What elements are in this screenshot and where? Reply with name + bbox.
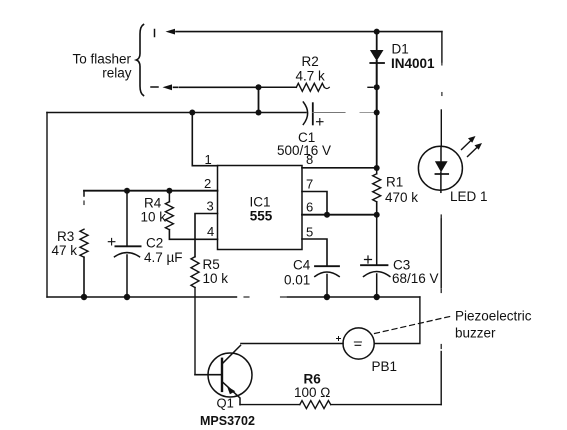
svg-text:Piezoelectric: Piezoelectric: [455, 309, 532, 324]
wire top rail down to LED: [441, 32, 443, 62]
buzzer PB1: [337, 328, 375, 359]
svg-text:C2: C2: [146, 236, 163, 251]
capacitor C3: [361, 215, 390, 297]
svg-text:D1: D1: [392, 41, 409, 56]
svg-text:100 Ω: 100 Ω: [294, 385, 330, 400]
LED 1: [418, 136, 482, 192]
label C2: [144, 236, 183, 266]
node junction top at D1: [374, 29, 380, 35]
node junction R3 bottom: [81, 294, 87, 300]
svg-text:10 k: 10 k: [141, 210, 167, 225]
wire emitter bottom run: [240, 404, 300, 406]
node junction pin1 drop: [189, 110, 195, 116]
svg-text:3: 3: [207, 199, 214, 214]
label R2: [296, 54, 326, 84]
svg-text:5: 5: [306, 225, 313, 240]
svg-text:6: 6: [306, 200, 313, 215]
svg-text:R4: R4: [144, 196, 162, 211]
wire R6 to right rail: [331, 404, 442, 406]
svg-text:relay: relay: [102, 66, 132, 81]
svg-text:MPS3702: MPS3702: [200, 414, 255, 428]
plus terminal mark: [154, 30, 156, 37]
svg-text:IN4001: IN4001: [391, 56, 435, 71]
node junction pin7/pin6: [324, 212, 330, 218]
label R4: [141, 196, 167, 225]
svg-text:7: 7: [306, 177, 313, 192]
resistor R3: [80, 191, 88, 297]
label R1: [385, 175, 418, 206]
svg-text:2: 2: [204, 176, 211, 191]
svg-text:buzzer: buzzer: [455, 326, 496, 341]
wire between relay line and C1 line: [258, 87, 260, 112]
node junction R2/D1: [374, 84, 380, 90]
wire right rail up to LED: [440, 352, 442, 405]
capacitor C4: [315, 266, 339, 297]
minus terminal mark: [151, 86, 158, 88]
resistor R1: [373, 168, 381, 215]
svg-text:Q1: Q1: [217, 396, 234, 411]
svg-text:1: 1: [205, 152, 212, 167]
svg-text:4.7 k: 4.7 k: [296, 69, 326, 84]
svg-text:68/16 V: 68/16 V: [392, 271, 439, 286]
wire pin1 drop: [192, 113, 217, 166]
label Piezoelectric buzzer with pointer: [375, 316, 453, 334]
wire pin 7 to pin 6: [302, 192, 327, 215]
wire bottom rail: [47, 296, 237, 298]
svg-text:0.01: 0.01: [284, 273, 310, 288]
wire D1 to pin8 node: [376, 113, 378, 169]
svg-text:500/16 V: 500/16 V: [277, 143, 331, 158]
svg-text:47 k: 47 k: [52, 243, 78, 258]
svg-text:IC1: IC1: [249, 195, 270, 210]
svg-text:8: 8: [306, 152, 313, 167]
node junction C1/D1 line: [374, 110, 380, 116]
label Q1: [200, 396, 255, 429]
label To flasher relay: [72, 52, 131, 81]
svg-text:C4: C4: [293, 258, 311, 273]
svg-text:R1: R1: [386, 175, 403, 190]
svg-text:To flasher: To flasher: [72, 52, 131, 67]
svg-text:R2: R2: [302, 54, 319, 69]
arrow to flasher relay (top): [176, 31, 442, 33]
svg-text:R3: R3: [57, 229, 74, 244]
wire dash R2 to D1 node: [368, 86, 373, 88]
label R5: [203, 257, 229, 286]
node junction R4 top: [166, 188, 172, 194]
svg-text:555: 555: [250, 209, 273, 224]
wire pin 3 to R5: [195, 214, 218, 257]
label C3: [392, 258, 439, 287]
label C1: [277, 130, 331, 158]
node junction C2 top: [124, 188, 130, 194]
wire rail down to buzzer: [374, 297, 420, 344]
svg-text:LED 1: LED 1: [450, 189, 488, 204]
label D1: [391, 41, 435, 71]
node junction C2 bottom: [124, 294, 130, 300]
node junction R1/pin6: [374, 212, 380, 218]
capacitor C2: [108, 191, 140, 297]
capacitor C1: [303, 102, 376, 125]
resistor R4: [165, 191, 217, 240]
transistor Q1: [195, 345, 252, 404]
wire collector to buzzer: [241, 343, 343, 345]
wire C1 horizontal line: [47, 112, 306, 114]
node junction R1 top: [374, 165, 380, 171]
node junction C1 line / R2 drop: [256, 110, 262, 116]
node junction C3 bottom: [374, 294, 380, 300]
svg-text:4.7 µF: 4.7 µF: [144, 250, 183, 265]
label C4: [284, 258, 311, 288]
label R3: [52, 229, 78, 258]
svg-text:470 k: 470 k: [385, 190, 418, 205]
svg-text:PB1: PB1: [372, 359, 398, 374]
wire pin 5 to C4: [302, 239, 327, 266]
diode D1: [370, 32, 384, 113]
label R6: [294, 372, 330, 401]
node junction C4 bottom: [324, 294, 330, 300]
svg-text:R5: R5: [203, 257, 220, 272]
wire pin 2 line: [84, 190, 218, 192]
resistor R2: [259, 83, 330, 91]
wire left rail: [46, 113, 48, 298]
svg-text:4: 4: [207, 224, 214, 239]
resistor R5: [191, 257, 199, 375]
op IC1 555 box: [218, 166, 303, 250]
brace for flasher relay terminals: [136, 25, 143, 96]
wire pin 8: [302, 167, 377, 169]
label IC1 555: [249, 195, 272, 224]
arrow to flasher relay (bottom): [174, 86, 259, 88]
node junction at relay line: [256, 84, 262, 90]
wire pin 6 to R1 bottom: [302, 214, 377, 216]
svg-text:10 k: 10 k: [203, 271, 229, 286]
resistor R6: [300, 401, 331, 409]
